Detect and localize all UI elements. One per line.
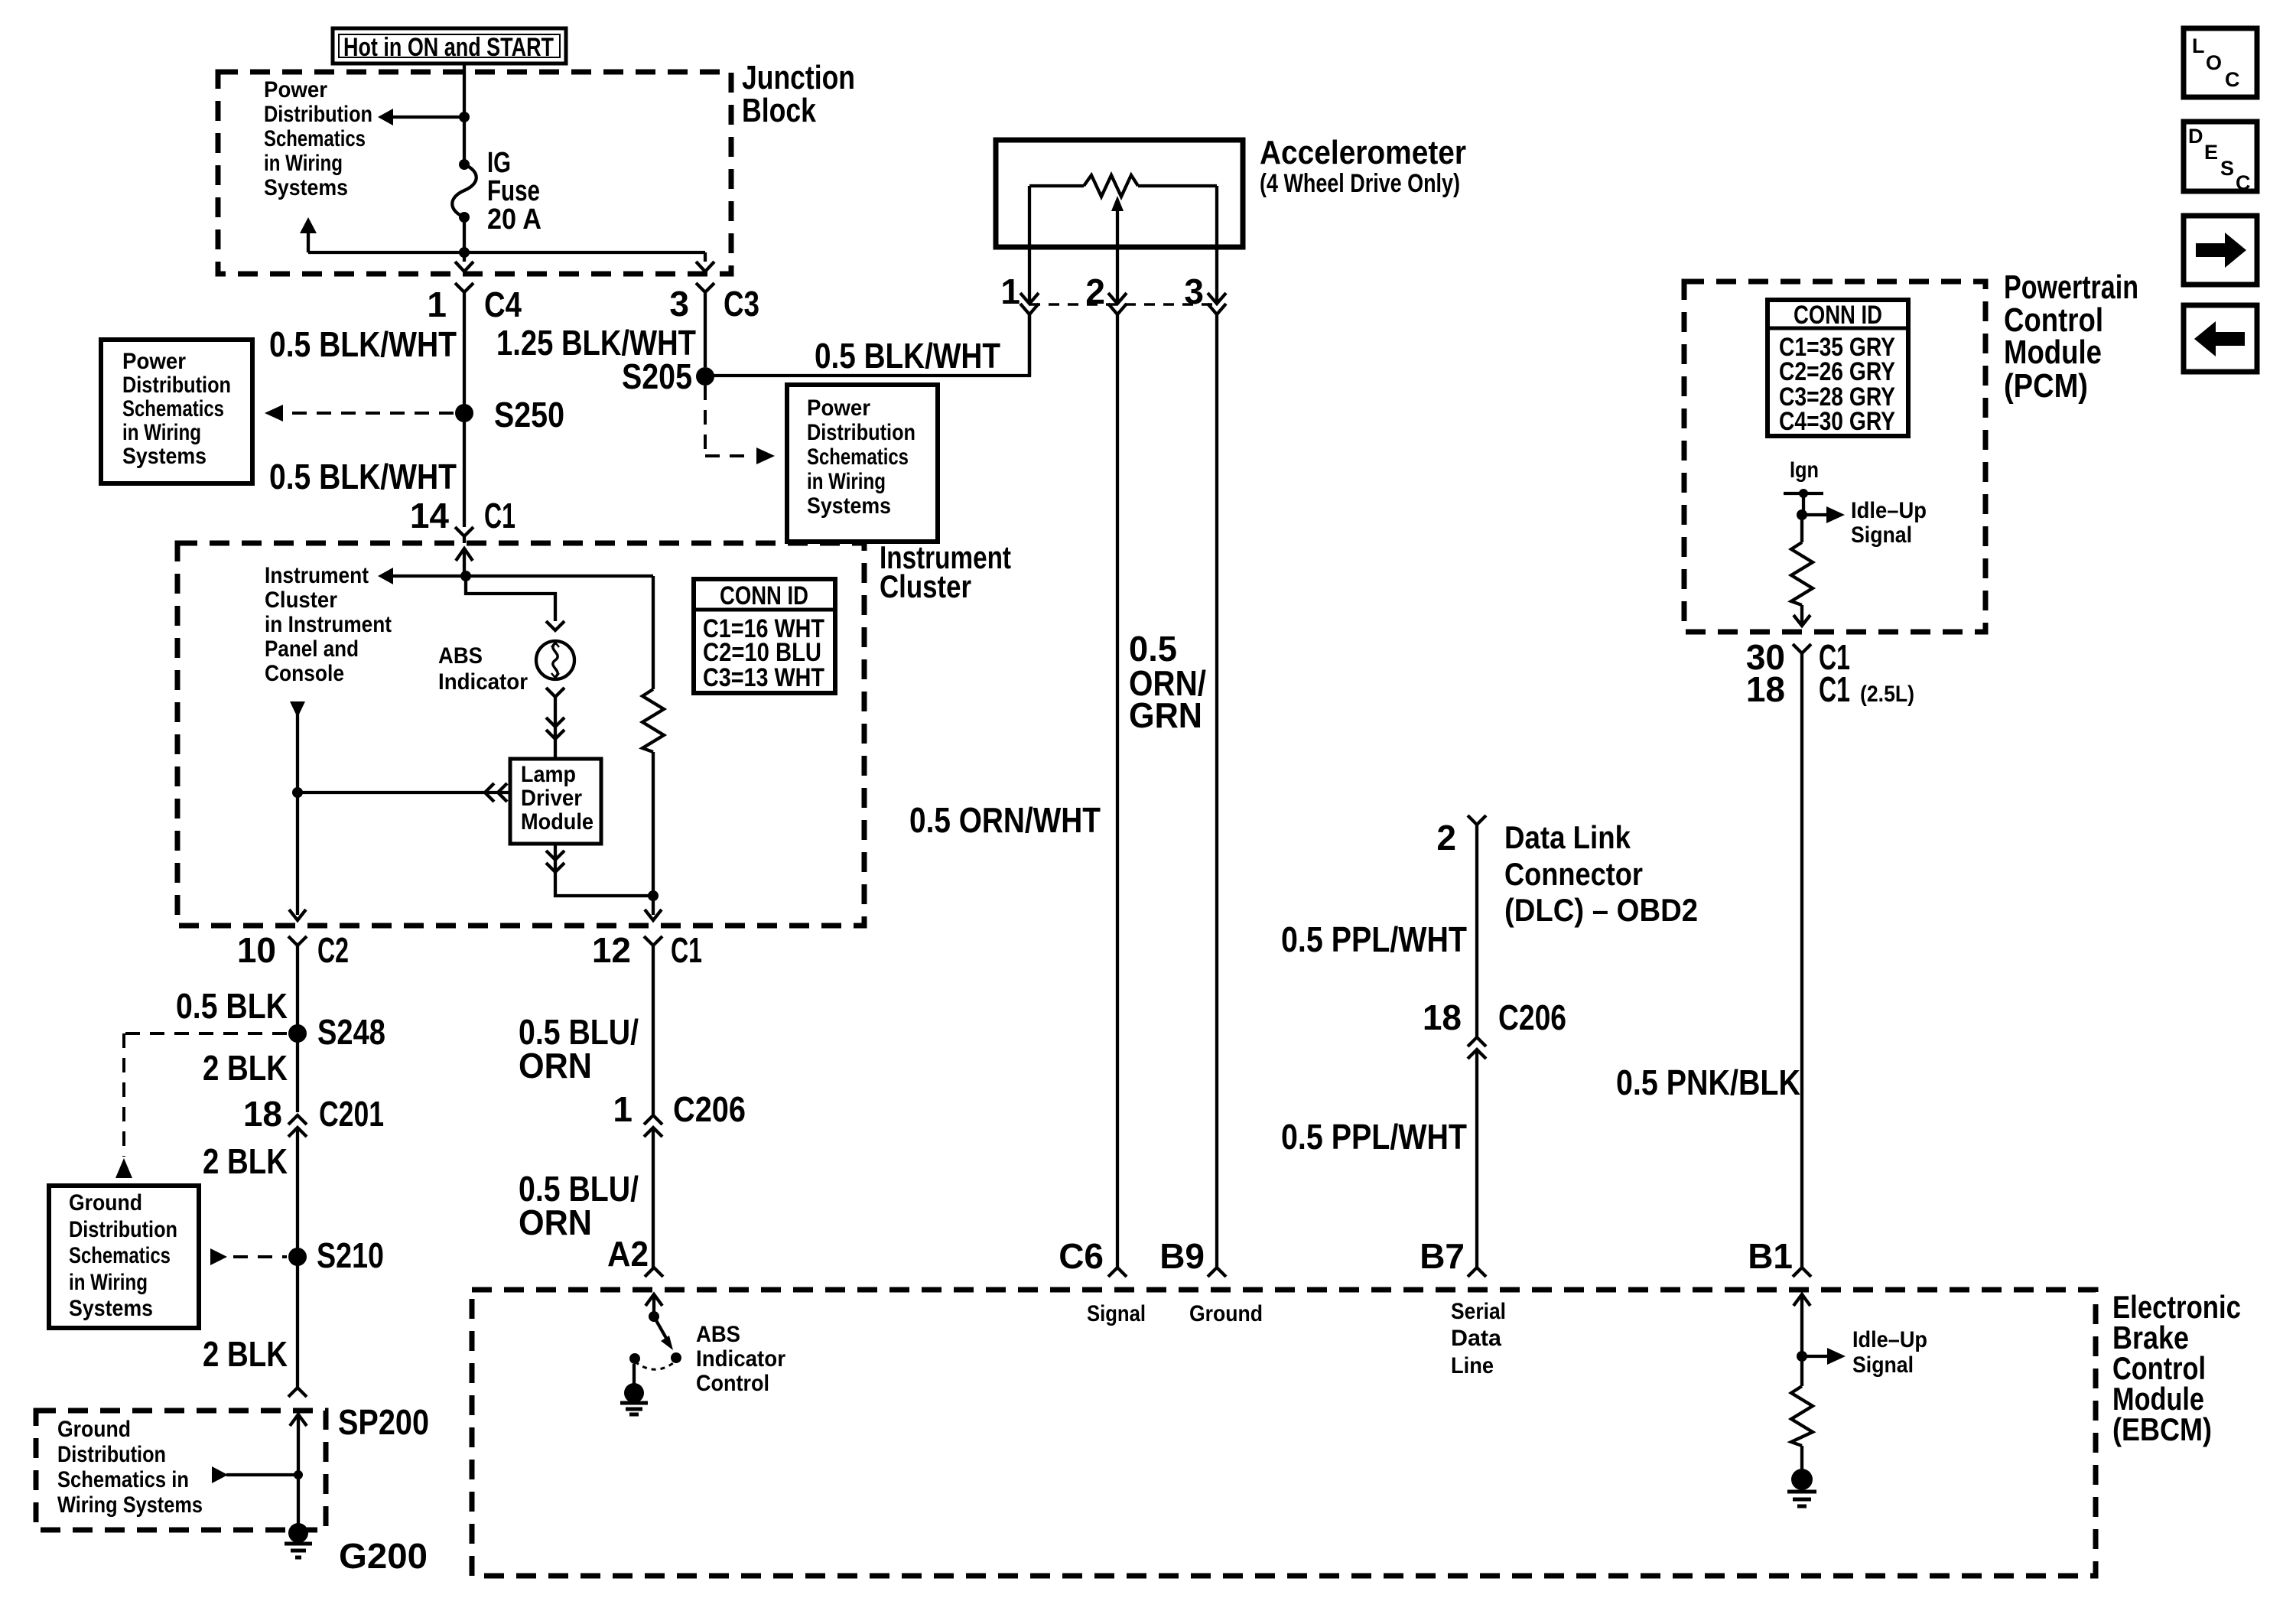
- label: Serial Data Line: [1451, 1299, 1506, 1378]
- svg-text:Signal: Signal: [1851, 522, 1912, 548]
- conn id box (PCM): [1768, 300, 1908, 436]
- svg-text:0.5 BLK/WHT: 0.5 BLK/WHT: [269, 324, 457, 364]
- connector 1 C206 inline: [644, 1115, 662, 1268]
- wire: B1 into EBCM with up arrow: [1794, 1294, 1810, 1356]
- connector 18 C206 inline (DLC): [1468, 1037, 1486, 1268]
- ground distribution dashed box (bottom): [36, 1411, 326, 1530]
- svg-text:(EBCM): (EBCM): [2112, 1411, 2212, 1447]
- label: Signal / Ground pin names: [1087, 1301, 1263, 1326]
- svg-text:Schematics: Schematics: [69, 1243, 171, 1268]
- label: pin 30 C1 / 18 C1 (2.5L): [1746, 637, 1914, 709]
- label: conn id contents (PCM): [1779, 301, 1895, 436]
- dashed reference from S205 to power distribution box (middle): [705, 386, 775, 464]
- svg-text:Accelerometer: Accelerometer: [1260, 134, 1466, 171]
- connector caret below ABS indicator: [546, 688, 564, 697]
- idle-up signal branch in EBCM: [1797, 1348, 1846, 1365]
- svg-text:20 A: 20 A: [487, 203, 541, 236]
- svg-text:Idle–Up: Idle–Up: [1852, 1327, 1927, 1352]
- svg-text:12: 12: [592, 930, 631, 970]
- left arrow box: [2184, 305, 2257, 372]
- svg-text:Distribution: Distribution: [807, 420, 915, 445]
- svg-text:Fuse: Fuse: [487, 175, 540, 207]
- wire: resistor to cluster exit: [652, 752, 655, 915]
- svg-text:C4: C4: [484, 285, 522, 324]
- connector 10 C2 below cluster: [288, 936, 307, 945]
- svg-text:Schematics: Schematics: [807, 444, 909, 470]
- svg-text:Systems: Systems: [807, 493, 891, 519]
- wire: 0.5 BLK/WHT pin1 C4 down to instrument cluster: [463, 292, 466, 527]
- svg-text:2: 2: [1085, 272, 1105, 311]
- label: powertrain control module: [2004, 268, 2138, 405]
- svg-text:B7: B7: [1420, 1236, 1465, 1276]
- svg-text:Module: Module: [2004, 334, 2102, 371]
- svg-text:C2: C2: [317, 930, 349, 970]
- svg-text:0.5 PPL/WHT: 0.5 PPL/WHT: [1281, 919, 1467, 959]
- connector exit arrow C4 (pin 1): [455, 262, 473, 292]
- svg-text:0.5 BLK: 0.5 BLK: [176, 986, 288, 1026]
- node: cluster feed junction: [460, 571, 471, 581]
- svg-text:Panel and: Panel and: [265, 636, 359, 662]
- svg-text:ORN: ORN: [519, 1046, 592, 1085]
- wire: pin 3 ground down to B9: [1215, 314, 1218, 1268]
- svg-text:Powertrain: Powertrain: [2004, 268, 2138, 306]
- wire: horizontal bus in junction block with up-arrow to power distribution: [300, 217, 705, 252]
- svg-text:in Wiring: in Wiring: [122, 420, 201, 445]
- svg-text:S248: S248: [317, 1012, 385, 1052]
- svg-text:E: E: [2204, 141, 2218, 164]
- svg-text:18: 18: [243, 1094, 282, 1134]
- idle-up signal branch in PCM: [1797, 506, 1845, 523]
- svg-text:Systems: Systems: [264, 175, 348, 200]
- wire: fuse to junction node: [463, 217, 466, 262]
- connector 30 C1 below PCM: [1793, 644, 1811, 1268]
- label: pin 1 C206: [613, 1089, 746, 1129]
- label: data link connector: [1504, 819, 1698, 928]
- ABS indicator lamp: [536, 641, 574, 679]
- svg-text:2 BLK: 2 BLK: [203, 1334, 288, 1374]
- svg-text:C3: C3: [724, 284, 759, 324]
- svg-text:ABS: ABS: [696, 1322, 740, 1347]
- svg-text:O: O: [2206, 51, 2222, 74]
- dashed reference arrow from ground distribution box to S210: [210, 1248, 287, 1265]
- label: electronic brake control module: [2112, 1289, 2241, 1447]
- dashed reference from S248 down to ground distribution box: [115, 1033, 287, 1178]
- svg-text:0.5 PNK/BLK: 0.5 PNK/BLK: [1616, 1063, 1800, 1102]
- wire: lamp driver module bottom output with double chevron: [546, 844, 659, 901]
- connector 18 C201 inline: [288, 1115, 307, 1388]
- wire: accelerometer pin 3: [1215, 186, 1218, 303]
- wire: z-step from junction to ABS indicator lamp: [466, 576, 555, 621]
- svg-text:Instrument: Instrument: [265, 563, 369, 588]
- wire: 0.5 BLK/WHT from S205 to accelerometer pin 1: [705, 314, 1029, 376]
- resistor (PCM): [1791, 515, 1813, 626]
- svg-text:ABS: ABS: [438, 643, 483, 669]
- label: accelerometer: [1260, 134, 1466, 198]
- wire: pin 2 signal down to C6: [1116, 314, 1119, 1268]
- node S250: [455, 404, 473, 422]
- junction block dashed box: [218, 72, 731, 274]
- wire: SP200 into box with up arrow: [290, 1414, 307, 1524]
- svg-text:C1: C1: [484, 496, 515, 535]
- label: ground distribution text (left box): [69, 1190, 177, 1321]
- ground in EBCM: [1787, 1469, 1816, 1506]
- label: 0.5 ORN/GRN: [1129, 629, 1206, 735]
- wiper arrow: [1111, 196, 1124, 303]
- svg-text:2 BLK: 2 BLK: [203, 1141, 288, 1181]
- svg-text:CONN ID: CONN ID: [1794, 301, 1882, 330]
- label: power distribution text (middle box): [807, 395, 915, 519]
- svg-text:0.5 BLK/WHT: 0.5 BLK/WHT: [815, 336, 1000, 376]
- svg-text:C206: C206: [1498, 998, 1566, 1037]
- svg-text:Line: Line: [1451, 1353, 1494, 1378]
- label: conn id contents (cluster): [703, 581, 824, 692]
- wire: pin 1 down to S205 horizontal (drawn above): [1028, 314, 1031, 376]
- label: lamp driver module: [521, 762, 594, 835]
- svg-text:Distribution: Distribution: [69, 1217, 177, 1242]
- wire: 1.25 BLK/WHT pin3 C3 down to S205: [704, 292, 707, 367]
- svg-text:in Wiring: in Wiring: [807, 469, 886, 494]
- label: pin 10 C2: [237, 930, 349, 970]
- svg-text:C1: C1: [671, 930, 702, 970]
- conn id box (instrument cluster): [694, 579, 835, 693]
- data link connector wire top caret: [1468, 815, 1486, 1037]
- svg-text:Serial: Serial: [1451, 1299, 1506, 1324]
- wire: arrow branch to power distribution (in junction block): [378, 109, 470, 125]
- wire: arrow to instrument cluster text: [378, 568, 653, 584]
- svg-text:C3=13 WHT: C3=13 WHT: [703, 663, 824, 692]
- label: instrument cluster in instrument panel and console: [265, 563, 392, 686]
- svg-text:0.5 PPL/WHT: 0.5 PPL/WHT: [1281, 1117, 1467, 1157]
- ABS indicator control switch: [629, 1311, 681, 1369]
- svg-text:(4 Wheel Drive Only): (4 Wheel Drive Only): [1260, 169, 1460, 198]
- svg-text:S250: S250: [494, 395, 564, 434]
- svg-text:0.5 ORN/WHT: 0.5 ORN/WHT: [909, 800, 1101, 840]
- svg-text:Connector: Connector: [1504, 856, 1643, 892]
- svg-text:C1: C1: [1819, 669, 1850, 709]
- ground G200: [285, 1523, 312, 1557]
- resistor (EBCM): [1791, 1356, 1813, 1470]
- label: IG Fuse 20 A: [487, 147, 541, 236]
- wire: lamp driver module left output with chevrons: [292, 783, 510, 802]
- connector exit arrow C3 (pin 3): [696, 262, 714, 292]
- svg-text:Cluster: Cluster: [265, 587, 337, 613]
- svg-text:Distribution: Distribution: [57, 1442, 166, 1467]
- wire: hot box to fuse: [463, 63, 466, 164]
- svg-text:Data: Data: [1451, 1326, 1501, 1351]
- resistor (instrument cluster): [642, 689, 664, 752]
- svg-text:S: S: [2220, 157, 2234, 180]
- svg-text:Lamp: Lamp: [521, 762, 576, 787]
- svg-text:C206: C206: [673, 1089, 746, 1129]
- ground distribution schematics box (left): [49, 1186, 199, 1328]
- svg-text:1: 1: [1000, 272, 1020, 311]
- power distribution schematics box (left): [101, 340, 252, 483]
- label: Idle-Up Signal (PCM): [1851, 498, 1927, 548]
- svg-text:1: 1: [427, 285, 447, 324]
- svg-text:Systems: Systems: [122, 444, 207, 469]
- svg-text:Schematics: Schematics: [122, 396, 224, 421]
- wire: 0.5 BLU/ORN from 12 C1 down: [652, 945, 655, 1115]
- svg-text:Indicator: Indicator: [696, 1346, 785, 1372]
- svg-text:3: 3: [1184, 272, 1204, 311]
- svg-text:IG: IG: [487, 147, 511, 179]
- label: power distribution text (left box): [122, 349, 231, 469]
- node S210: [288, 1248, 307, 1266]
- wire: branch arrow inside ground box: [212, 1466, 303, 1483]
- svg-text:Power: Power: [264, 77, 327, 103]
- svg-text:Ground: Ground: [69, 1190, 142, 1216]
- svg-text:Block: Block: [742, 92, 816, 129]
- svg-text:L: L: [2192, 34, 2205, 57]
- PCM dashed box: [1684, 282, 1985, 632]
- svg-text:GRN: GRN: [1129, 695, 1202, 735]
- svg-text:S210: S210: [317, 1235, 384, 1275]
- connector caret B1 at EBCM: [1793, 1268, 1811, 1277]
- svg-text:Idle–Up: Idle–Up: [1851, 498, 1927, 523]
- connector arrows pin 3: [1208, 293, 1226, 314]
- label: power distribution text (junction block): [264, 77, 372, 200]
- connector caret above ABS indicator: [546, 621, 564, 630]
- instrument cluster dashed box: [177, 543, 864, 926]
- connector caret B7 at EBCM: [1468, 1268, 1486, 1277]
- svg-text:Control: Control: [696, 1371, 769, 1396]
- connector caret B9 at EBCM: [1208, 1268, 1226, 1277]
- wire: resistor branch in cluster: [652, 576, 655, 689]
- dashed reference arrow from S250 to power distribution box: [265, 405, 454, 421]
- splice pack SP200 caret: [288, 1388, 307, 1397]
- connector caret C6 at EBCM: [1108, 1268, 1127, 1277]
- svg-text:C: C: [2225, 68, 2240, 91]
- potentiometer in accelerometer: [1029, 175, 1217, 197]
- svg-text:14: 14: [410, 496, 450, 535]
- svg-text:Junction: Junction: [742, 59, 855, 96]
- svg-text:Cluster: Cluster: [880, 568, 971, 604]
- label: Idle-Up Signal (EBCM): [1852, 1327, 1927, 1378]
- svg-text:2: 2: [1436, 818, 1456, 858]
- svg-text:in Wiring: in Wiring: [69, 1270, 148, 1295]
- Ign tick in PCM: [1784, 489, 1823, 515]
- svg-text:Power: Power: [122, 349, 186, 374]
- svg-text:C201: C201: [319, 1094, 384, 1134]
- svg-text:CONN ID: CONN ID: [720, 581, 808, 610]
- EBCM dashed box: [472, 1290, 2096, 1576]
- wire: accelerometer pin 1: [1028, 186, 1031, 303]
- node S248: [288, 1024, 307, 1043]
- fuse IG 20A: [452, 159, 476, 223]
- svg-text:Hot in ON and START: Hot in ON and START: [343, 33, 554, 62]
- svg-text:SP200: SP200: [338, 1402, 429, 1442]
- svg-text:D: D: [2188, 125, 2203, 148]
- svg-text:in Wiring: in Wiring: [264, 151, 343, 176]
- label: 0.5 BLU/ORN (2): [519, 1169, 639, 1242]
- svg-text:18: 18: [1423, 998, 1462, 1037]
- wire: lamp to lamp driver module with double chevron: [546, 697, 564, 759]
- label: pin 14 C1: [410, 496, 515, 535]
- svg-text:S205: S205: [622, 356, 692, 396]
- label: pin 18 C201: [243, 1094, 384, 1134]
- label: ABS Indicator: [438, 643, 528, 695]
- label: pin 3 C3: [669, 284, 759, 324]
- svg-text:1: 1: [613, 1089, 633, 1129]
- lamp driver module box: [510, 759, 601, 844]
- DESC box: [2184, 122, 2257, 194]
- wire: 0.5 BLK ground chain from 10 C2: [296, 945, 299, 1112]
- label: 0.5 BLU/ORN (1): [519, 1012, 639, 1085]
- wire: A2 into EBCM with up arrow: [646, 1294, 662, 1318]
- svg-text:Console: Console: [265, 661, 344, 686]
- svg-text:B9: B9: [1159, 1236, 1205, 1276]
- svg-text:Ign: Ign: [1790, 457, 1819, 483]
- svg-text:C6: C6: [1059, 1236, 1104, 1276]
- svg-text:Schematics in: Schematics in: [57, 1467, 189, 1492]
- right arrow box: [2184, 216, 2257, 285]
- svg-text:Schematics: Schematics: [264, 126, 366, 151]
- svg-text:Signal: Signal: [1087, 1301, 1146, 1326]
- svg-text:18: 18: [1746, 669, 1785, 709]
- label: pin 18 C206 (DLC): [1423, 998, 1566, 1037]
- connector caret A2 at EBCM: [645, 1268, 663, 1277]
- svg-text:Driver: Driver: [521, 786, 582, 811]
- connector arrows pin 1: [1020, 293, 1039, 314]
- svg-text:in Instrument: in Instrument: [265, 612, 392, 637]
- svg-text:0.5 BLK/WHT: 0.5 BLK/WHT: [269, 457, 457, 496]
- svg-text:Data Link: Data Link: [1504, 819, 1631, 855]
- dashed connector line at accelerometer pins: [1029, 303, 1217, 306]
- svg-text:Systems: Systems: [69, 1296, 153, 1321]
- svg-text:10: 10: [237, 930, 276, 970]
- label: pin 12 C1: [592, 930, 702, 970]
- svg-text:3: 3: [669, 284, 689, 324]
- wire: C3 branch corner down: [704, 252, 707, 262]
- svg-text:Module: Module: [521, 809, 594, 835]
- svg-text:(DLC) – OBD2: (DLC) – OBD2: [1504, 892, 1698, 928]
- svg-text:Indicator: Indicator: [438, 669, 528, 695]
- svg-text:2 BLK: 2 BLK: [203, 1048, 288, 1088]
- junction block label: [742, 59, 855, 129]
- node S205: [696, 367, 714, 386]
- accelerometer box: [996, 140, 1243, 247]
- power distribution schematics box (middle): [787, 385, 938, 542]
- svg-text:Wiring Systems: Wiring Systems: [57, 1492, 203, 1518]
- label: ground distribution text (bottom dashed box): [57, 1417, 203, 1518]
- wire: cluster ground branch with down arrow: [289, 701, 306, 920]
- svg-text:Ground: Ground: [57, 1417, 131, 1442]
- svg-text:B1: B1: [1748, 1236, 1793, 1276]
- connector 14 C1 into instrument cluster: [455, 527, 473, 576]
- svg-text:A2: A2: [607, 1234, 649, 1274]
- hot-in-on-and-start box: [333, 28, 566, 63]
- connector arrows pin 2: [1108, 293, 1127, 314]
- label: accelerometer pin numbers: [1000, 272, 1204, 311]
- svg-text:G200: G200: [339, 1536, 428, 1576]
- svg-text:Distribution: Distribution: [122, 373, 231, 398]
- label: instrument cluster (outside): [880, 539, 1011, 604]
- svg-text:Distribution: Distribution: [264, 102, 372, 127]
- svg-text:Ground: Ground: [1189, 1301, 1263, 1326]
- junction node dot: [459, 247, 470, 258]
- svg-text:(2.5L): (2.5L): [1860, 682, 1914, 707]
- label: ABS Indicator Control: [696, 1322, 785, 1396]
- connector 12 C1 below cluster: [644, 910, 662, 945]
- ground at ABS switch: [620, 1364, 648, 1414]
- svg-text:Signal: Signal: [1852, 1352, 1914, 1378]
- LOC box: [2184, 28, 2257, 97]
- svg-text:(PCM): (PCM): [2004, 367, 2088, 405]
- svg-text:C: C: [2236, 171, 2251, 194]
- svg-text:Power: Power: [807, 395, 870, 421]
- label: pin 1 C4: [427, 285, 522, 324]
- svg-text:ORN: ORN: [519, 1203, 592, 1242]
- svg-text:C4=30 GRY: C4=30 GRY: [1779, 407, 1895, 436]
